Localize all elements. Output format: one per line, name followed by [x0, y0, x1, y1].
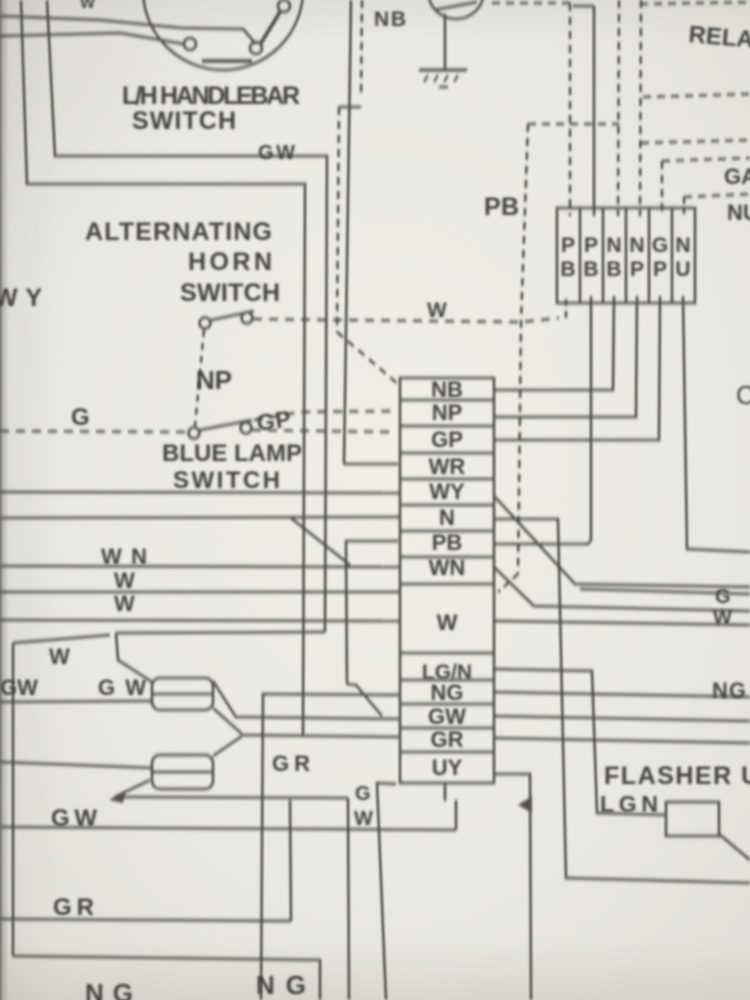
svg-text:P: P — [630, 258, 644, 281]
wire NG row left corner — [261, 694, 400, 1000]
wire N row long left — [0, 517, 400, 518]
wire GR row left — [242, 735, 400, 737]
svg-text:WN: WN — [429, 555, 466, 580]
switch contact bar — [202, 59, 252, 63]
wire dashed GA to right — [662, 158, 750, 161]
svg-text:PB: PB — [484, 193, 519, 221]
svg-text:NB: NB — [374, 8, 406, 31]
wire from box down left — [116, 632, 325, 633]
svg-text:P: P — [561, 234, 575, 257]
alternating horn switch terminal — [242, 313, 253, 324]
svg-text:B: B — [560, 258, 575, 281]
wire W dashed hook up to cell — [565, 299, 568, 318]
lighting switch body (circle) — [428, 0, 484, 19]
svg-text:ALTERNATING: ALTERNATING — [85, 218, 272, 246]
wire GR row right — [494, 738, 750, 743]
wire left vertical — [12, 643, 15, 956]
wire jog at junction — [339, 106, 361, 109]
connector block 6-way — [557, 208, 695, 303]
wire dashed to right edge — [641, 140, 750, 143]
svg-text:W: W — [713, 607, 732, 629]
terminal — [278, 0, 290, 12]
svg-text:N: N — [439, 505, 455, 530]
wire GP dashed to GP row — [252, 430, 396, 432]
svg-text:W: W — [354, 808, 373, 830]
wire dashed top — [492, 2, 570, 5]
wire N row right down — [494, 519, 750, 883]
wire to switch terminal — [0, 33, 184, 44]
wire diagonal arrow to connector2 — [115, 780, 150, 797]
svg-text:UY: UY — [432, 755, 463, 780]
svg-text:GW: GW — [0, 675, 38, 700]
terminal — [250, 42, 262, 54]
switch chord — [434, 2, 477, 10]
svg-text:GP: GP — [255, 405, 292, 435]
terminal — [184, 38, 196, 50]
wire connector2 top diagonal — [213, 736, 242, 756]
wire W into switch through terminals — [0, 16, 256, 44]
svg-text:WY: WY — [429, 479, 465, 504]
wire PB dashed vertical — [518, 124, 528, 574]
svg-text:U: U — [675, 258, 690, 281]
svg-text:G: G — [715, 586, 731, 608]
wire cell3 to NB row — [494, 296, 614, 390]
ground — [419, 69, 467, 72]
svg-text:W: W — [427, 299, 447, 322]
wire elbow into GW wire — [347, 684, 382, 716]
wire WN row long left — [0, 566, 400, 567]
wire stub up — [455, 800, 458, 830]
wire cell5 to GP row — [494, 296, 660, 440]
wire NB dashed down — [337, 107, 339, 332]
wire solid down to cell 2 — [593, 6, 596, 216]
blue lamp switch lever — [200, 420, 252, 430]
wire jog down to connector — [116, 633, 152, 682]
wire dashed top right — [640, 2, 750, 4]
wire W row long left upper — [0, 591, 400, 594]
connector block 14-way — [400, 378, 494, 783]
wire vertical below arrow junction — [348, 798, 349, 1000]
wire UY row down — [494, 774, 531, 1000]
arrowhead on UY wire — [518, 796, 532, 813]
wire stub below UY cell — [444, 783, 447, 801]
wire dashed to cell 5 — [661, 161, 664, 216]
wire PB row left with vertical down — [346, 541, 398, 684]
wire WR from vertical — [344, 463, 398, 466]
svg-text:NG: NG — [712, 678, 746, 703]
wire dashed down to cell 3 — [618, 0, 619, 216]
svg-text:W: W — [437, 610, 458, 635]
svg-text:P: P — [584, 234, 598, 257]
blue lamp switch terminal — [189, 428, 200, 439]
wire box around handlebar switch — [47, 0, 327, 632]
svg-text:FLASHER UNIT: FLASHER UNIT — [604, 762, 750, 790]
wire PB dashed horizontal — [528, 123, 619, 126]
svg-text:GA: GA — [724, 164, 750, 189]
svg-text:N: N — [629, 234, 644, 257]
wire arrow line — [115, 797, 348, 798]
wire GW long bottom — [0, 827, 456, 830]
wire to ground — [444, 14, 447, 69]
wire below block bottom left — [377, 783, 396, 1000]
wire WY diagonal right — [495, 497, 750, 587]
svg-text:NG: NG — [431, 680, 464, 705]
svg-text:W: W — [114, 591, 135, 616]
bullet connector 1 — [152, 678, 213, 710]
svg-text:LGN: LGN — [600, 791, 658, 817]
wire solid hook — [573, 5, 594, 8]
wire cell4 to NP row — [494, 296, 637, 417]
svg-text:W: W — [80, 0, 96, 12]
svg-text:W: W — [49, 644, 70, 669]
wire G dashed — [0, 431, 188, 432]
svg-text:GW: GW — [258, 142, 295, 164]
wire W dashed horn to connector — [253, 318, 559, 322]
wire dashed down to cell 4 — [640, 0, 641, 216]
svg-text:NP: NP — [432, 400, 463, 425]
wire dashed to right edge — [643, 94, 750, 97]
wire connector1 to GW row — [213, 681, 400, 719]
wire NG row right — [494, 692, 750, 697]
wire dashed down to cell 1 — [569, 3, 572, 216]
wire GW vertical from top — [344, 0, 351, 464]
wire GR vertical — [290, 800, 291, 921]
svg-text:N: N — [606, 234, 621, 257]
L/H handlebar switch body (circle) — [143, 0, 303, 70]
svg-text:NP: NP — [196, 365, 232, 395]
wire parallel right — [580, 589, 750, 594]
wire NB dashed diagonal to block — [337, 332, 398, 384]
wire cell2 to PB row — [494, 296, 591, 544]
wire box around horn switch — [21, 0, 305, 735]
wire GR long bottom — [0, 919, 291, 921]
svg-text:SWITCH: SWITCH — [132, 107, 236, 135]
svg-text:G: G — [71, 404, 90, 431]
blue lamp switch terminal — [241, 423, 252, 434]
svg-text:B: B — [606, 258, 621, 281]
wire dashed from top — [361, 0, 362, 98]
svg-text:G: G — [355, 783, 371, 805]
svg-text:GW: GW — [51, 805, 97, 832]
svg-text:WR: WR — [429, 454, 466, 479]
alternating horn switch terminal — [200, 318, 211, 329]
svg-text:L/H HANDLEBAR: L/H HANDLEBAR — [122, 82, 300, 110]
wire dashed NU to right — [684, 194, 750, 197]
wire PB dashed diagonal into block — [498, 574, 518, 592]
svg-text:B: B — [583, 258, 598, 281]
wire into connector 2 — [0, 762, 152, 768]
svg-text:G: G — [652, 234, 668, 257]
switch lever — [261, 12, 280, 43]
alternating horn switch lever — [211, 311, 254, 320]
wire LGN to flasher — [494, 669, 666, 815]
wire W row right — [494, 621, 750, 625]
bullet connector 2 — [152, 755, 213, 789]
wire W row long left lower — [0, 620, 400, 621]
wire WN diagonal right — [494, 567, 750, 611]
wire GW row right — [494, 716, 750, 721]
wire flasher diagonal — [719, 834, 750, 860]
wire connector1 bottom diagonal — [213, 708, 242, 734]
svg-text:GP: GP — [431, 427, 463, 452]
wire W short left — [13, 635, 110, 643]
wire WY row long left — [0, 492, 400, 493]
svg-text:W: W — [114, 568, 135, 593]
svg-text:BLUE LAMP: BLUE LAMP — [162, 440, 302, 467]
wire into connector lower cell — [0, 701, 152, 702]
svg-text:PB: PB — [432, 530, 463, 555]
wire diagonal tee — [291, 518, 350, 565]
svg-text:GR: GR — [431, 727, 464, 752]
svg-text:C: C — [736, 380, 750, 410]
svg-text:GW: GW — [428, 704, 466, 729]
svg-text:P: P — [653, 258, 667, 281]
flasher unit box — [666, 802, 719, 836]
wire dashed stub cell 6 — [683, 197, 686, 214]
wire cell6 down and right — [683, 296, 750, 552]
svg-text:NB: NB — [431, 377, 463, 402]
wire GP dashed to NP row — [254, 411, 396, 420]
wire bottom horizontal — [13, 956, 320, 1000]
svg-text:SWITCH: SWITCH — [180, 279, 280, 307]
arrowhead — [109, 790, 126, 803]
wire NP dashed between switches — [195, 330, 204, 426]
svg-text:N: N — [675, 234, 690, 257]
svg-text:NU: NU — [727, 200, 750, 225]
